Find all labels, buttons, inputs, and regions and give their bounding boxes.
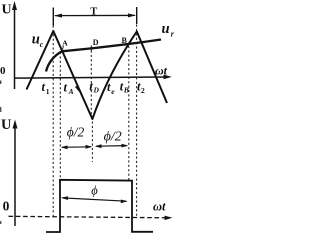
svg-text:ϕ/2: ϕ/2 [104, 130, 122, 145]
dashed line at peak1 / t1 [52, 26, 54, 218]
dashed line below valley (center) [91, 122, 93, 163]
node A pointer [62, 46, 65, 50]
svg-text:ϕ/2: ϕ/2 [67, 124, 85, 139]
U axis (top plot) [12, 1, 17, 89]
dashed line at peak2 / t2 [136, 25, 138, 219]
T span right tick [136, 7, 138, 24]
svg-text:U: U [1, 117, 12, 133]
phi/2 arrow right [95, 144, 128, 148]
dashed line at D [90, 51, 92, 117]
scan speck left edge 3 [0, 221, 1, 224]
svg-text:ωt: ωt [155, 63, 168, 77]
phi span arrow [61, 196, 128, 203]
svg-text:D: D [93, 38, 99, 47]
svg-text:T: T [90, 6, 97, 17]
dashed line at B [128, 46, 130, 181]
svg-text:U: U [2, 3, 12, 18]
phi/2 arrow left [61, 145, 92, 149]
svg-text:B: B [123, 86, 129, 95]
svg-text:0: 0 [0, 65, 6, 77]
svg-text:B: B [122, 36, 128, 45]
svg-text:A: A [68, 87, 74, 96]
U axis (bottom plot) [13, 120, 18, 227]
svg-text:D: D [93, 86, 100, 95]
dashed line at A / t_A [59, 52, 61, 180]
svg-text:ϕ: ϕ [91, 183, 98, 197]
svg-text:c: c [40, 40, 44, 49]
output pulse waveform [46, 180, 153, 232]
arrowhead on u_c falling edge [75, 85, 80, 92]
wt axis (bottom plot, dashed) [9, 216, 173, 221]
reference u_r curve [46, 40, 161, 72]
node D tick on u_r [90, 46, 92, 51]
svg-text:2: 2 [141, 86, 145, 95]
svg-text:u: u [162, 21, 170, 37]
carrier u_c triangle wave [27, 31, 168, 119]
svg-text:ωt: ωt [153, 199, 166, 213]
T span left tick [52, 8, 54, 26]
svg-text:0: 0 [3, 198, 10, 213]
scan speck left edge 1 [0, 81, 1, 84]
T span arrow line [54, 13, 136, 17]
scan speck left edge 2 [0, 107, 1, 112]
svg-text:1: 1 [46, 87, 50, 96]
svg-text:u: u [32, 32, 40, 48]
wt axis (top plot) [15, 75, 172, 80]
svg-text:t: t [64, 81, 68, 95]
